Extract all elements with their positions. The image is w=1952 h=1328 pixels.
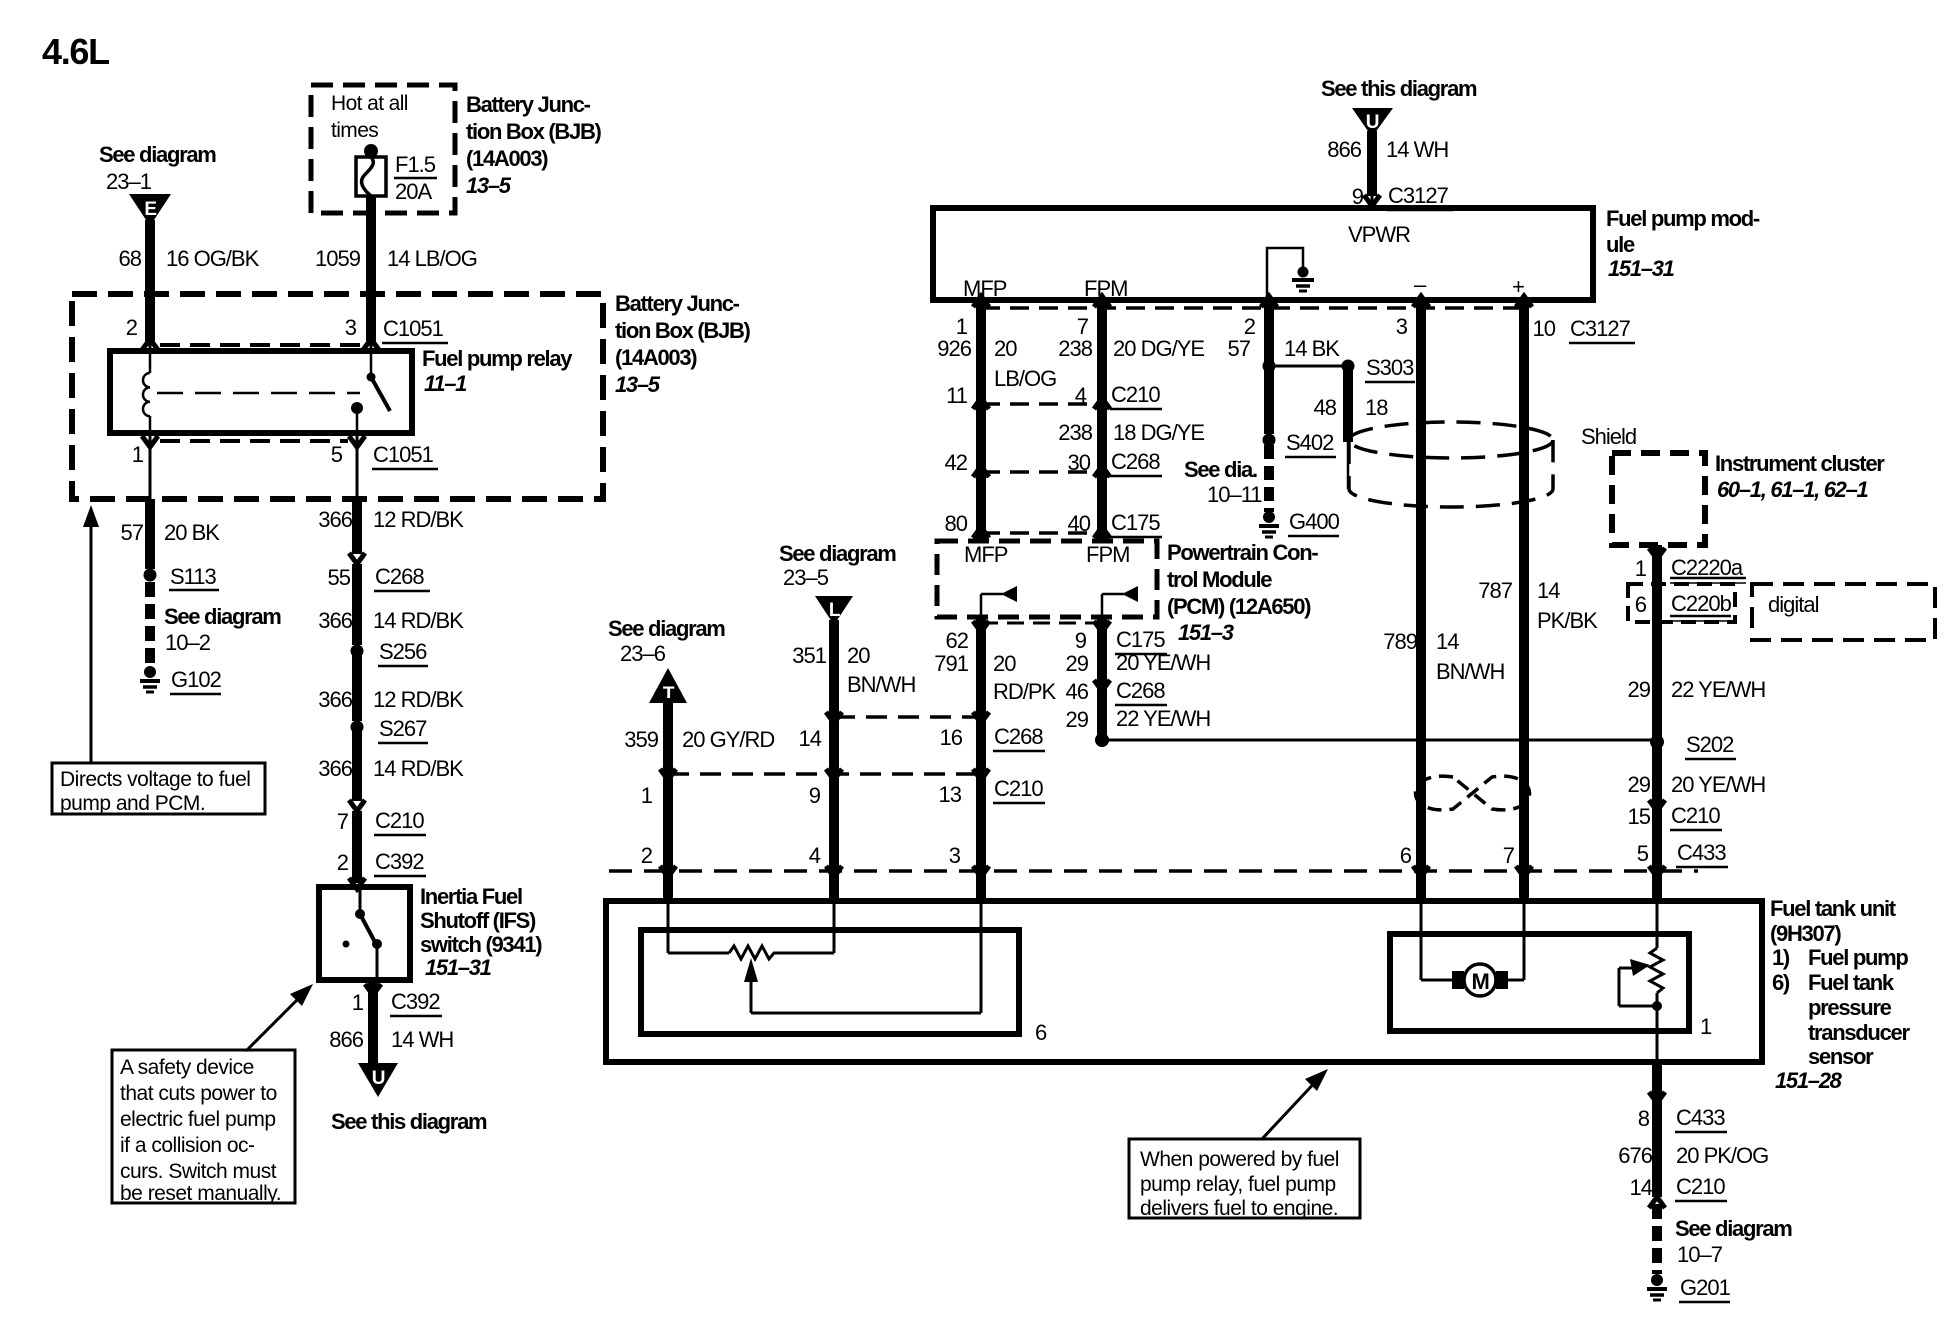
svg-text:U: U	[372, 1068, 385, 1089]
Powertrain Control Module dashed box	[937, 541, 1157, 617]
svg-text:22 YE/WH: 22 YE/WH	[1116, 706, 1210, 731]
arrowhead down into IFS	[349, 878, 365, 889]
connector C268 dashed line (L to MFP)	[834, 715, 981, 719]
arrow from safety box to IFS	[246, 984, 313, 1051]
svg-text:See diagram: See diagram	[164, 604, 281, 629]
arrowhead down pin1	[142, 436, 158, 447]
wire 366 14 RD/BK	[352, 564, 362, 645]
svg-text:U: U	[1366, 112, 1379, 133]
svg-text:Directs voltage to fuel: Directs voltage to fuel	[60, 768, 250, 791]
svg-text:A safety device: A safety device	[120, 1056, 254, 1079]
connector C1051 bottom dashed line	[160, 439, 348, 443]
fuse box (BJB) dashed	[311, 85, 455, 213]
svg-text:C220b: C220b	[1671, 591, 1732, 616]
svg-text:S303: S303	[1366, 355, 1414, 380]
svg-text:151–3: 151–3	[1178, 620, 1234, 645]
svg-text:1: 1	[1635, 556, 1647, 581]
svg-text:14: 14	[1436, 629, 1459, 654]
dashed wire to G201	[1652, 1204, 1662, 1274]
svg-text:G102: G102	[171, 667, 222, 692]
splice S402	[1263, 434, 1276, 447]
svg-text:C210: C210	[375, 808, 424, 833]
wire 1059 14 LB/OG from fuse to BJB	[366, 196, 376, 297]
connector C268 (46) label	[1094, 680, 1110, 691]
arrowheads up on FPM wire	[1094, 296, 1110, 307]
svg-text:55: 55	[328, 565, 351, 590]
svg-text:ule: ule	[1606, 232, 1635, 257]
Battery Junction Box (BJB) dashed box	[72, 294, 603, 499]
svg-text:366: 366	[318, 608, 352, 633]
svg-text:3: 3	[949, 843, 961, 868]
svg-text:80: 80	[945, 511, 968, 536]
svg-text:pump relay, fuel pump: pump relay, fuel pump	[1140, 1173, 1336, 1196]
wire pin5 to BJB bottom	[356, 433, 359, 499]
wire below tank 676 20 PK/OG	[1652, 1062, 1662, 1197]
svg-text:57: 57	[1228, 336, 1251, 361]
note box Directs voltage	[52, 763, 265, 815]
Instrument cluster dashed box	[1612, 453, 1705, 545]
svg-text:C268: C268	[375, 564, 424, 589]
svg-text:See this diagram: See this diagram	[1321, 76, 1477, 101]
svg-text:S113: S113	[170, 564, 217, 589]
svg-text:2: 2	[126, 315, 138, 340]
svg-text:62: 62	[946, 628, 969, 653]
svg-text:11–1: 11–1	[424, 371, 467, 396]
svg-text:C433: C433	[1677, 840, 1726, 865]
svg-text:C268: C268	[1111, 449, 1160, 474]
wire L continues	[829, 717, 839, 774]
svg-text:12 RD/BK: 12 RD/BK	[373, 507, 464, 532]
PCM internal flag MFP	[981, 586, 1017, 617]
wire 866 14 WH	[368, 982, 378, 1064]
wire to C392	[352, 811, 362, 883]
arrowhead up at C210	[1649, 1197, 1665, 1208]
wire 366 14 RD/BK	[352, 727, 362, 801]
svg-text:7: 7	[337, 809, 349, 834]
relay coil	[143, 352, 150, 433]
connector C1051 top dashed line	[160, 343, 362, 347]
svg-text:F1.5: F1.5	[395, 152, 436, 177]
wire pin3 stub into relay	[366, 297, 376, 341]
svg-text:20 YE/WH: 20 YE/WH	[1116, 650, 1210, 675]
svg-text:sensor: sensor	[1808, 1044, 1874, 1069]
svg-text:676: 676	[1618, 1143, 1652, 1168]
svg-text:See diagram: See diagram	[1675, 1216, 1792, 1241]
svg-text:16: 16	[940, 725, 963, 750]
svg-text:See this diagram: See this diagram	[331, 1109, 487, 1134]
svg-text:S256: S256	[379, 639, 427, 664]
note box A safety device	[112, 1050, 295, 1205]
arrow from note box to tank	[1262, 1069, 1328, 1139]
svg-text:9: 9	[809, 783, 821, 808]
cluster wire down	[1652, 545, 1662, 871]
svg-text:curs. Switch must: curs. Switch must	[120, 1160, 277, 1183]
arrowhead up pin2	[142, 339, 158, 350]
shield drain wire 48 18	[1343, 366, 1353, 442]
svg-text:1059: 1059	[315, 246, 361, 271]
svg-text:S267: S267	[379, 716, 427, 741]
transducer wire into tank	[1652, 871, 1662, 901]
svg-text:See diagram: See diagram	[99, 142, 216, 167]
svg-text:When powered by fuel: When powered by fuel	[1140, 1148, 1339, 1171]
svg-text:See diagram: See diagram	[779, 541, 896, 566]
svg-text:10: 10	[1533, 316, 1556, 341]
wires T,L continue to boundary	[663, 774, 673, 884]
wire pin2 stub into relay	[145, 297, 155, 341]
svg-text:Fuel tank unit: Fuel tank unit	[1770, 896, 1897, 921]
junction dot and line to S202	[1095, 733, 1109, 747]
svg-text:359: 359	[624, 727, 658, 752]
svg-text:C2220a: C2220a	[1671, 555, 1744, 580]
svg-text:Battery Junc-: Battery Junc-	[615, 291, 740, 316]
svg-text:(9H307): (9H307)	[1770, 921, 1841, 946]
svg-text:switch (9341): switch (9341)	[420, 932, 542, 957]
svg-text:3: 3	[1396, 314, 1408, 339]
svg-text:366: 366	[318, 687, 352, 712]
svg-text:C210: C210	[994, 776, 1043, 801]
svg-text:23–6: 23–6	[620, 641, 666, 666]
sender resistor	[668, 946, 834, 959]
svg-text:12 RD/BK: 12 RD/BK	[373, 687, 464, 712]
connector C210 (cluster)	[1649, 800, 1665, 811]
svg-text:6): 6)	[1772, 970, 1790, 995]
svg-text:1: 1	[641, 783, 653, 808]
svg-text:Instrument cluster: Instrument cluster	[1715, 451, 1885, 476]
svg-text:20 PK/OG: 20 PK/OG	[1676, 1143, 1768, 1168]
svg-text:29: 29	[1628, 772, 1651, 797]
svg-text:151–31: 151–31	[1608, 256, 1675, 281]
svg-text:238: 238	[1058, 336, 1092, 361]
wire 359 20 GY/RD	[663, 698, 673, 774]
svg-text:pressure: pressure	[1808, 995, 1892, 1020]
arrowhead down into C268	[349, 553, 365, 564]
svg-text:789: 789	[1383, 629, 1417, 654]
svg-text:BN/WH: BN/WH	[847, 672, 915, 697]
svg-text:C392: C392	[391, 989, 440, 1014]
svg-text:10–7: 10–7	[1677, 1242, 1723, 1267]
wire FPM below PCM	[1097, 617, 1107, 738]
dashed wire to G102	[145, 582, 155, 666]
connector C268 dashed line	[981, 470, 1102, 474]
off-page connector L (triangle down)	[815, 596, 853, 625]
sender wires into box	[667, 871, 670, 953]
svg-text:20A: 20A	[395, 179, 432, 204]
svg-text:68: 68	[119, 246, 142, 271]
svg-text:57: 57	[121, 520, 144, 545]
arrowheads up on MFP wire	[973, 296, 989, 307]
svg-text:be reset manually.: be reset manually.	[120, 1182, 281, 1205]
svg-text:20 GY/RD: 20 GY/RD	[682, 727, 774, 752]
svg-text:366: 366	[318, 507, 352, 532]
svg-text:866: 866	[1327, 137, 1361, 162]
svg-text:926: 926	[937, 336, 971, 361]
svg-text:2: 2	[641, 843, 653, 868]
svg-text:2: 2	[337, 850, 349, 875]
digital dashed box	[1752, 584, 1935, 640]
connector C3127 dashed line below module	[981, 306, 1524, 310]
wire 366 12 RD/BK	[352, 651, 362, 721]
svg-text:20: 20	[994, 336, 1017, 361]
svg-text:(PCM) (12A650): (PCM) (12A650)	[1167, 594, 1311, 619]
svg-text:866: 866	[329, 1027, 363, 1052]
svg-text:60–1, 61–1, 62–1: 60–1, 61–1, 62–1	[1717, 477, 1869, 502]
ground G102	[140, 666, 160, 692]
svg-text:tion Box (BJB): tion Box (BJB)	[615, 318, 751, 343]
fuel level sender box	[641, 930, 1019, 1034]
svg-text:Fuel pump relay: Fuel pump relay	[422, 346, 573, 371]
relay switch	[351, 352, 390, 433]
svg-text:1: 1	[352, 990, 364, 1015]
arrowhead up pin3	[363, 339, 379, 350]
svg-text:C433: C433	[1676, 1105, 1725, 1130]
IFS switch internals	[343, 887, 383, 980]
svg-text:MFP: MFP	[964, 542, 1008, 567]
svg-text:151–31: 151–31	[425, 955, 492, 980]
svg-text:14: 14	[1537, 578, 1560, 603]
wire 57 14 BK pin2	[1264, 300, 1274, 434]
svg-text:FPM: FPM	[1086, 542, 1129, 567]
svg-text:4: 4	[1075, 383, 1087, 408]
svg-text:electric fuel pump: electric fuel pump	[120, 1108, 276, 1131]
svg-text:See dia.: See dia.	[1184, 457, 1257, 482]
svg-text:G201: G201	[1680, 1275, 1731, 1300]
svg-text:S402: S402	[1286, 430, 1334, 455]
svg-text:(14A003): (14A003)	[466, 146, 548, 171]
svg-text:10–11: 10–11	[1207, 482, 1262, 507]
svg-text:42: 42	[945, 450, 968, 475]
arrowhead down into module	[1364, 195, 1380, 206]
off-page connector T (triangle up)	[649, 668, 687, 705]
svg-text:6: 6	[1400, 843, 1412, 868]
svg-text:C1051: C1051	[373, 442, 434, 467]
svg-text:20 YE/WH: 20 YE/WH	[1671, 772, 1765, 797]
off-page connector U (big arrow down)	[358, 1063, 398, 1097]
svg-text:14 BK: 14 BK	[1284, 336, 1340, 361]
fuel pump relay box	[110, 351, 412, 433]
arrowhead down below IFS	[365, 984, 381, 995]
svg-text:29: 29	[1066, 651, 1089, 676]
splice S267	[351, 721, 364, 734]
svg-text:791: 791	[934, 651, 968, 676]
svg-text:14: 14	[1630, 1175, 1653, 1200]
svg-text:6: 6	[1035, 1020, 1047, 1045]
boundary dashed line (C433 level)	[609, 869, 1698, 873]
svg-text:VPWR: VPWR	[1348, 222, 1410, 247]
svg-text:Fuel pump mod-: Fuel pump mod-	[1606, 206, 1760, 231]
svg-text:5: 5	[1637, 841, 1649, 866]
svg-text:13–5: 13–5	[466, 173, 512, 198]
svg-text:6: 6	[1635, 592, 1647, 617]
off-page connector U (triangle) top	[1352, 108, 1393, 137]
svg-text:13: 13	[939, 782, 962, 807]
svg-text:7: 7	[1503, 843, 1515, 868]
wire MFP pin1 down to PCM	[976, 300, 986, 542]
svg-text:366: 366	[318, 756, 352, 781]
fuel pump motor M	[1421, 964, 1524, 996]
svg-text:14 RD/BK: 14 RD/BK	[373, 756, 464, 781]
svg-text:E: E	[144, 199, 156, 220]
splice S256	[351, 645, 364, 658]
fuse F1.5 20A	[356, 144, 437, 204]
svg-text:Shield: Shield	[1581, 424, 1636, 449]
svg-text:LB/OG: LB/OG	[994, 366, 1056, 391]
twisted pair symbol	[1415, 776, 1529, 810]
svg-text:C210: C210	[1676, 1174, 1725, 1199]
svg-text:23–5: 23–5	[783, 565, 829, 590]
svg-text:787: 787	[1478, 578, 1512, 603]
note box When powered	[1129, 1139, 1360, 1220]
svg-text:48: 48	[1314, 395, 1337, 420]
svg-text:15: 15	[1628, 804, 1651, 829]
fuel pump box	[1390, 934, 1689, 1031]
svg-text:Shutoff (IFS): Shutoff (IFS)	[420, 908, 536, 933]
wire 866 14 WH to module	[1367, 131, 1377, 196]
Fuel tank unit box	[606, 901, 1762, 1062]
ground G400	[1259, 511, 1279, 537]
svg-text:transducer: transducer	[1808, 1020, 1910, 1045]
ground G201	[1647, 1274, 1667, 1300]
pump wires into box	[1420, 871, 1423, 980]
svg-text:11: 11	[946, 383, 968, 408]
arrowhead down into C210	[349, 800, 365, 811]
svg-text:1: 1	[132, 442, 144, 467]
svg-text:5: 5	[331, 442, 343, 467]
svg-text:14 RD/BK: 14 RD/BK	[373, 608, 464, 633]
svg-text:Hot at all: Hot at all	[331, 92, 408, 115]
svg-text:18 DG/YE: 18 DG/YE	[1113, 420, 1204, 445]
svg-text:1): 1)	[1772, 945, 1790, 970]
svg-text:G400: G400	[1289, 509, 1340, 534]
svg-text:C268: C268	[994, 724, 1043, 749]
svg-text:13–5: 13–5	[615, 372, 661, 397]
svg-text:22 YE/WH: 22 YE/WH	[1671, 677, 1765, 702]
svg-text:20 BK: 20 BK	[164, 520, 220, 545]
svg-text:Fuel pump: Fuel pump	[1808, 945, 1908, 970]
transducer wire out of tank	[1656, 1006, 1659, 1062]
svg-text:4.6L: 4.6L	[42, 31, 109, 72]
svg-text:20: 20	[993, 651, 1016, 676]
relay dashed link coil to switch	[157, 392, 360, 395]
svg-text:238: 238	[1058, 420, 1092, 445]
svg-text:tion Box (BJB): tion Box (BJB)	[466, 119, 602, 144]
svg-text:29: 29	[1628, 677, 1651, 702]
svg-text:if a collision oc-: if a collision oc-	[120, 1134, 255, 1157]
wire pin3 789 14 BN/WH	[1416, 300, 1426, 871]
svg-text:C175: C175	[1116, 627, 1165, 652]
fuel pump module box	[933, 208, 1593, 300]
svg-text:C210: C210	[1671, 803, 1720, 828]
wire FPM pin7 down to PCM	[1097, 300, 1107, 542]
svg-text:Fuel tank: Fuel tank	[1808, 970, 1895, 995]
svg-text:C1051: C1051	[383, 316, 444, 341]
sender wiper arrow	[744, 901, 981, 1013]
svg-text:M: M	[1471, 969, 1488, 994]
connector C210 dashed line (T,L,MFP)	[668, 772, 981, 776]
svg-text:14: 14	[799, 726, 822, 751]
svg-text:C392: C392	[375, 849, 424, 874]
svg-text:C175: C175	[1111, 510, 1160, 535]
splice S202	[1650, 735, 1664, 749]
svg-text:40: 40	[1068, 511, 1091, 536]
off-page connector E (triangle)	[129, 194, 171, 226]
fuel tank pressure transducer	[1619, 948, 1663, 1011]
svg-text:16 OG/BK: 16 OG/BK	[166, 246, 260, 271]
splice S113	[144, 569, 157, 582]
svg-text:14 WH: 14 WH	[391, 1027, 453, 1052]
wire 57 20 BK	[145, 499, 155, 569]
svg-text:29: 29	[1066, 707, 1089, 732]
svg-text:3: 3	[345, 315, 357, 340]
wire 791 20 RD/PK below PCM	[976, 617, 986, 884]
svg-text:that cuts power to: that cuts power to	[120, 1082, 277, 1105]
wire 351 20 BN/WH	[829, 620, 839, 717]
svg-text:digital: digital	[1768, 592, 1819, 617]
svg-text:Battery Junc-: Battery Junc-	[466, 92, 591, 117]
MFP wire into tank	[976, 871, 986, 901]
arrowheads at boundary	[660, 866, 676, 877]
wire 68 16 OG/BK from E to BJB	[145, 220, 155, 297]
svg-text:delivers fuel to engine.: delivers fuel to engine.	[1140, 1197, 1338, 1220]
svg-text:151–28: 151–28	[1775, 1068, 1843, 1093]
svg-text:Powertrain Con-: Powertrain Con-	[1167, 540, 1318, 565]
svg-text:20: 20	[847, 643, 870, 668]
arrowhead down pin5	[349, 436, 365, 447]
svg-text:351: 351	[792, 643, 826, 668]
connector C175 dashed line	[981, 531, 1102, 535]
Inertia Fuel Shutoff switch box	[319, 887, 410, 980]
splice S303	[1263, 360, 1276, 373]
svg-text:30: 30	[1068, 450, 1091, 475]
svg-text:C3127: C3127	[1388, 183, 1449, 208]
svg-text:46: 46	[1066, 679, 1089, 704]
svg-text:pump and PCM.: pump and PCM.	[60, 792, 205, 815]
svg-text:times: times	[331, 119, 378, 142]
svg-text:S202: S202	[1686, 732, 1734, 757]
arrow pointing to BJB from note box	[83, 505, 99, 762]
svg-text:C3127: C3127	[1570, 316, 1631, 341]
svg-text:10–2: 10–2	[165, 630, 211, 655]
wire 366 12 RD/BK below BJB	[352, 499, 362, 554]
connector C210 dashed line	[981, 402, 1102, 406]
svg-text:4: 4	[809, 843, 821, 868]
dashed wire to G400	[1264, 445, 1274, 512]
svg-text:L: L	[829, 600, 841, 621]
connector C220b dashed box	[1628, 584, 1735, 622]
svg-text:14 WH: 14 WH	[1386, 137, 1448, 162]
module internal ground	[1267, 248, 1314, 300]
PCM internal flag FPM	[1102, 586, 1138, 617]
svg-text:23–1: 23–1	[106, 169, 152, 194]
shield (dashed cylinder)	[1349, 422, 1553, 507]
svg-text:20 DG/YE: 20 DG/YE	[1113, 336, 1204, 361]
svg-text:BN/WH: BN/WH	[1436, 659, 1504, 684]
svg-text:See diagram: See diagram	[608, 616, 725, 641]
svg-text:Inertia Fuel: Inertia Fuel	[420, 884, 522, 909]
dashed line below PCM	[981, 622, 1102, 625]
svg-text:14 LB/OG: 14 LB/OG	[387, 246, 477, 271]
svg-text:C210: C210	[1111, 382, 1160, 407]
svg-text:1: 1	[1700, 1014, 1712, 1039]
svg-text:8: 8	[1638, 1106, 1650, 1131]
wire pin1 to BJB bottom	[149, 433, 152, 499]
svg-text:C268: C268	[1116, 678, 1165, 703]
svg-text:(14A003): (14A003)	[615, 345, 697, 370]
svg-text:PK/BK: PK/BK	[1537, 608, 1598, 633]
wire pin10 787 14 PK/BK	[1519, 300, 1529, 871]
svg-text:18: 18	[1365, 395, 1388, 420]
svg-text:RD/PK: RD/PK	[993, 679, 1057, 704]
svg-text:trol Module: trol Module	[1167, 567, 1272, 592]
